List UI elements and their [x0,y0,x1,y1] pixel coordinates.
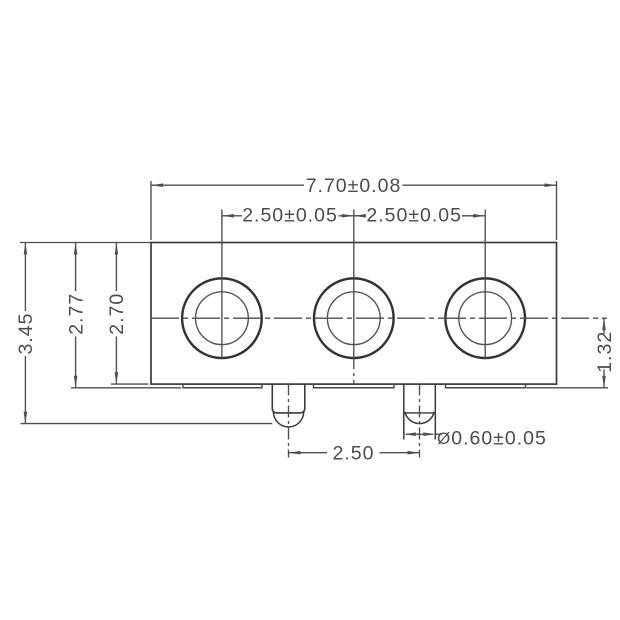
dimension line diameter 0.60 [406,433,442,435]
bottom extension line for 3.45 [21,423,273,425]
solder tail pin 2 left side / extension [403,384,405,439]
arrow 3.45 top [24,243,28,255]
dimension line 1.32 [603,318,605,388]
bottom extension line for 1.32 [527,387,609,389]
pogo pin 2 plunger inner circle [327,292,380,345]
dimension line 3.45 [24,243,26,424]
solder tail pin 2 right side / extension [434,384,436,439]
pogo pin 1 outer ring [182,278,262,358]
svg-text:7.70±0.08: 7.70±0.08 [306,175,402,197]
solder tail 2 centerline [419,384,421,458]
bottom extension line for 2.77 [71,387,181,389]
extension line right for 7.70 [556,181,558,240]
svg-text:3.45: 3.45 [15,313,37,355]
pogo pin 2 outer ring [314,278,394,358]
bottom lip tab 2 [314,384,395,388]
dimension line 2.77 [75,243,77,388]
pogo pin 1 plunger inner circle [196,292,249,345]
arrow dia 0.60 right [423,432,435,436]
svg-text:2.70: 2.70 [106,293,128,335]
solder tail pin 1 rounded tip arc [273,412,303,427]
bottom extension line for 2.70 [111,383,149,385]
svg-text:2.50±0.05: 2.50±0.05 [242,204,338,226]
arrow dia 0.60 left [404,432,416,436]
arrow 2.50 bottom right [408,451,420,455]
connector body outline [151,243,557,385]
arrow 1.32 bottom [602,376,606,388]
pogo pin 3 outer ring [445,278,525,358]
arrow 3.45 bottom [24,412,28,424]
solder tail pin 2 rounded tip arc [405,412,434,424]
arrow 2.50 left dim right [342,214,354,218]
arrow 2.70 bottom [115,372,119,384]
vertical centerline pin 2 lower dashed [353,361,355,384]
solder tail pin 1 body [272,384,305,413]
arrow 2.50 right dim left [354,214,366,218]
dimension line 2.50 pitch left [222,215,354,217]
bottom lip tab 1 [183,384,262,388]
horizontal centerline through pogo pins [151,317,607,319]
vertical centerline pin 3 [484,210,486,359]
top extension line for left dims [20,242,151,244]
svg-text:2.50: 2.50 [333,442,375,464]
dimension line 2.50 bottom [289,452,420,454]
arrow 2.50 right dim right [473,214,485,218]
arrow 2.50 left dim left [222,214,234,218]
svg-text:Ø0.60±0.05: Ø0.60±0.05 [437,428,547,450]
dimension line 7.70 [151,184,557,186]
arrow 2.77 bottom [74,376,78,388]
arrow 2.50 bottom left [289,451,301,455]
vertical centerline pin 2 upper [353,210,355,362]
solder tail 1 centerline [288,384,290,458]
svg-text:2.77: 2.77 [65,293,87,335]
arrow 7.70 right [545,183,557,187]
solder tail pin 2 tip chord [404,412,436,414]
extension line left for 7.70 [150,181,152,240]
arrow 1.32 top [602,318,606,330]
svg-text:2.50±0.05: 2.50±0.05 [366,204,462,226]
vertical centerline pin 1 [221,210,223,359]
dimension line 2.50 pitch right [354,215,485,217]
dimension line 2.70 [115,243,117,385]
arrow 2.77 top [74,243,78,255]
pogo pin 3 plunger inner circle [459,292,512,345]
arrow 2.70 top [115,243,119,255]
arrow 7.70 left [151,183,163,187]
bottom lip tab 3 [446,384,526,388]
svg-text:1.32: 1.32 [594,331,616,373]
